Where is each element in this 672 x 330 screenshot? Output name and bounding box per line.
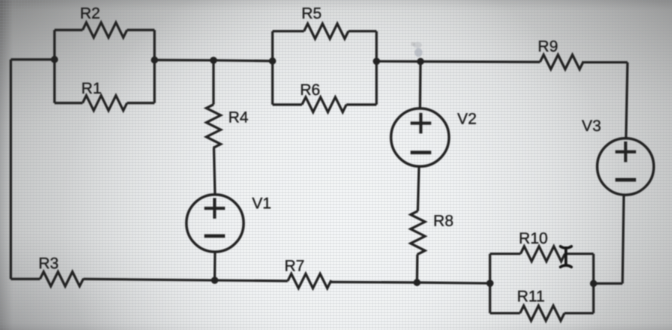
svg-text:R6: R6: [300, 82, 320, 99]
wire R10 top-left lead: [490, 253, 521, 255]
svg-text:R11: R11: [517, 289, 545, 306]
node C (left of R5/R6): [269, 57, 276, 64]
resistor R2: [83, 23, 127, 38]
resistor R4: [206, 105, 220, 148]
wire top rail R5/R6 to V2 junction: [377, 60, 421, 63]
wire R1 bottom-left lead: [55, 102, 83, 104]
resistor R1: [83, 96, 127, 111]
wire left stub from node A to left edge: [11, 58, 55, 60]
wire to R10/R11 right node: [594, 282, 623, 284]
node R8-bottom junction: [413, 279, 420, 286]
R10/R11 parallel block left vertical wire: [489, 254, 491, 313]
wire R8 to bottom node: [416, 255, 419, 283]
node A (left of R1/R2): [51, 56, 58, 63]
node B (right of R1/R2): [151, 56, 158, 63]
wire V3 bottom down: [623, 195, 624, 284]
wire top rail node B to R4 junction: [155, 59, 214, 62]
resistor R11: [520, 306, 564, 321]
svg-text:V1: V1: [252, 196, 272, 213]
svg-text:V2: V2: [457, 111, 476, 128]
node F (left of R10/R11): [486, 280, 493, 287]
wire R11 bottom-left lead: [490, 312, 520, 314]
wire top rail to R5/R6 block: [214, 59, 273, 62]
wire left edge vertical: [10, 60, 12, 280]
node E (V2 branch junction): [417, 58, 424, 65]
node D (right of R5/R6): [373, 58, 380, 65]
wire R5 top-left lead: [273, 30, 305, 32]
svg-text:R7: R7: [284, 258, 304, 275]
svg-text:R10: R10: [519, 231, 548, 248]
wire R4 junction down: [212, 60, 214, 104]
wire bottom rail segment 5: [417, 281, 490, 284]
wire R6 bottom-left lead: [273, 103, 303, 105]
R1/R2 parallel block left vertical wire: [53, 30, 55, 103]
R1/R2 block right vertical wire: [153, 30, 155, 103]
resistor R10: [521, 246, 565, 261]
node R4-top junction: [210, 57, 217, 64]
wire R6 bottom-right lead: [346, 103, 376, 105]
wire R9 to top-right corner: [584, 61, 628, 63]
wire R1 bottom-right lead: [127, 102, 155, 104]
resistor R9: [540, 55, 584, 69]
voltage source V3: [597, 138, 654, 195]
smudge mark on screen: [411, 42, 423, 57]
wire bottom rail segment 3: [215, 279, 288, 282]
wire right edge down to V3: [626, 62, 628, 138]
wire V2 junction to R9: [421, 60, 541, 63]
resistor R3: [40, 272, 83, 286]
svg-text:R1: R1: [81, 80, 101, 97]
wire R11 bottom-right lead: [564, 312, 593, 314]
resistor R5: [304, 24, 348, 39]
resistor R6: [302, 97, 346, 112]
svg-text:R9: R9: [538, 39, 558, 56]
node G (right of R10/R11): [590, 280, 597, 287]
svg-text:R4: R4: [228, 110, 248, 127]
R5/R6 parallel block left vertical wire: [271, 31, 273, 104]
wire R4 to V1: [214, 148, 215, 195]
text I-beam cursor: [560, 246, 571, 267]
svg-text:R2: R2: [80, 6, 100, 23]
voltage source V2: [419, 62, 422, 109]
svg-text:R3: R3: [39, 256, 59, 273]
resistor R7: [288, 274, 332, 288]
svg-text:V3: V3: [582, 118, 602, 135]
R10/R11 block right vertical wire: [592, 254, 594, 313]
wire R2 top-left lead: [55, 29, 83, 31]
node V1-bottom junction: [211, 277, 218, 284]
wire R10 top-right lead: [565, 253, 594, 255]
voltage source V1: [186, 195, 243, 252]
resistor R8: [411, 211, 425, 254]
wire V2 bottom to R8: [418, 166, 419, 211]
wire V1 bottom to rail: [213, 252, 216, 280]
wire R2 top-right lead: [127, 29, 155, 31]
svg-text:R8: R8: [433, 213, 453, 230]
svg-text:R5: R5: [302, 6, 322, 23]
wire bottom rail segment 4: [331, 281, 417, 284]
wire R5 top-right lead: [348, 30, 376, 32]
wire bottom rail segment 2: [84, 279, 215, 280]
R5/R6 block right vertical wire: [375, 31, 377, 104]
wire bottom rail segment 1: [11, 278, 40, 280]
